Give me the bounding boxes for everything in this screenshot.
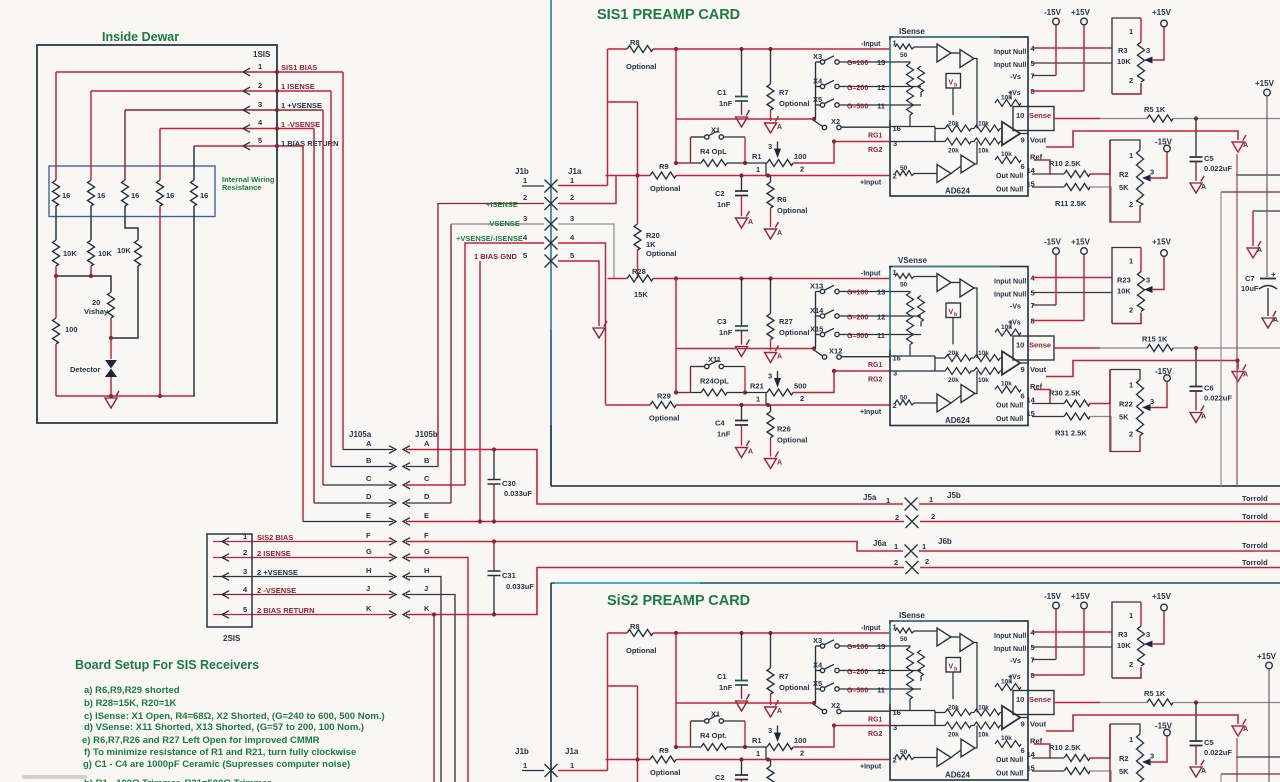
ground C7	[1262, 311, 1276, 328]
preamp core instance 3	[606, 592, 1280, 782]
wire riser pin1 to J105a A	[342, 72, 344, 450]
svg-text:5K: 5K	[1119, 183, 1129, 192]
svg-text:X4: X4	[813, 661, 823, 670]
svg-text:R21: R21	[750, 382, 764, 391]
svg-text:2: 2	[894, 558, 898, 567]
svg-text:K: K	[424, 604, 430, 613]
preamp core instance 1	[606, 8, 1280, 239]
svg-text:SIS1 PREAMP CARD: SIS1 PREAMP CARD	[597, 7, 740, 23]
connector header J105b	[415, 430, 438, 439]
svg-text:5: 5	[523, 251, 527, 260]
svg-text:15K: 15K	[634, 290, 648, 299]
resistor 10K col3	[135, 240, 142, 266]
connector J6b label	[922, 537, 952, 551]
svg-text:Board Setup For SIS Receivers: Board Setup For SIS Receivers	[75, 658, 259, 672]
capacitor C2 labels	[715, 189, 731, 209]
svg-text:Torrold: Torrold	[1242, 558, 1268, 567]
svg-text:Optional: Optional	[777, 436, 807, 445]
title SIS2 PREAMP CARD	[607, 593, 750, 609]
bottom node wire	[56, 395, 195, 397]
svg-text:J1b: J1b	[515, 747, 529, 756]
trim labels R5 (SIS2)	[1144, 689, 1166, 698]
svg-text:2 BIAS RETURN: 2 BIAS RETURN	[257, 606, 315, 615]
svg-text:R4 OpL: R4 OpL	[700, 147, 727, 156]
J1 mating X marks	[545, 180, 558, 268]
Torroid label 3	[1242, 541, 1268, 550]
capacitor C3 labels	[717, 317, 733, 337]
svg-text:Vishay: Vishay	[84, 307, 109, 316]
svg-text:R24OpL: R24OpL	[700, 377, 729, 386]
svg-text:1: 1	[886, 496, 890, 505]
net label 2 -VSENSE	[257, 586, 296, 595]
wire riser pin3 to J105a C	[322, 110, 324, 485]
SIS2 J1a pin1 wire	[558, 770, 608, 772]
svg-text:16: 16	[62, 191, 70, 200]
trim labels R15	[1142, 335, 1168, 344]
svg-text:5: 5	[570, 251, 574, 260]
svg-text:Optional: Optional	[650, 184, 680, 193]
capacitor C4 labels	[715, 419, 731, 439]
amplifier U2 title VSense	[898, 256, 927, 265]
wire J105b B up to J1b pin2	[406, 204, 544, 467]
svg-text:3: 3	[243, 567, 247, 576]
svg-text:Detector: Detector	[70, 365, 101, 374]
svg-text:10K: 10K	[1117, 641, 1131, 650]
SIS2 J1 pin1 numbers	[523, 761, 574, 770]
wire J1a pin2 stub	[558, 176, 616, 204]
trim labels R2	[1119, 170, 1129, 192]
svg-text:C31: C31	[502, 571, 516, 580]
svg-text:1: 1	[922, 542, 926, 551]
J1b pin1 stub	[522, 185, 544, 187]
svg-text:100: 100	[65, 325, 78, 334]
svg-text:R27: R27	[779, 317, 793, 326]
note a	[84, 685, 180, 696]
svg-text:C: C	[424, 474, 430, 483]
wire J1b pin5 riser to row E	[479, 261, 481, 522]
R20 labels	[646, 231, 676, 258]
detector diode	[105, 360, 117, 377]
wire riser pin2 to J105a B	[330, 91, 332, 467]
svg-text:R15 1K: R15 1K	[1142, 335, 1168, 344]
svg-text:X1: X1	[711, 126, 720, 135]
svg-text:X3: X3	[813, 52, 822, 61]
wire col1 node to 100	[55, 276, 57, 318]
resistor 16 (col3)	[122, 180, 129, 206]
svg-text:Optional: Optional	[650, 768, 680, 777]
net label 2 ISENSE	[257, 549, 291, 558]
connector 2SIS box	[207, 534, 252, 627]
Torroid label 2	[1242, 512, 1268, 521]
amplifier U3 title ISense	[899, 611, 925, 620]
svg-text:3: 3	[523, 214, 527, 223]
svg-text:C4: C4	[715, 419, 725, 428]
svg-text:2: 2	[523, 193, 527, 202]
svg-text:1nF: 1nF	[717, 200, 731, 209]
connector 2SIS label	[223, 634, 241, 643]
resistor R6 labels	[777, 195, 807, 215]
J6 row2 labels	[894, 557, 929, 567]
J105 row H	[213, 566, 429, 577]
svg-text:X5: X5	[813, 679, 822, 688]
svg-text:1: 1	[523, 761, 527, 770]
dewar ground	[105, 391, 119, 408]
net label 2 BIAS RETURN	[257, 606, 315, 615]
net label +ISENSE	[486, 200, 518, 209]
svg-text:10K: 10K	[117, 246, 131, 255]
svg-text:+15V: +15V	[1257, 652, 1277, 661]
wire col1 below box	[55, 206, 57, 240]
svg-text:C5: C5	[1204, 738, 1214, 747]
svg-text:b) R28=15K, R20=1K: b) R28=15K, R20=1K	[84, 698, 177, 709]
svg-text:1nF: 1nF	[719, 99, 733, 108]
svg-text:1K: 1K	[646, 240, 656, 249]
svg-text:R1: R1	[752, 736, 762, 745]
junction dots row K	[432, 612, 496, 616]
resistor 16 (col1)	[53, 180, 60, 206]
wire vishay node to detector	[110, 338, 112, 359]
svg-text:16: 16	[131, 191, 139, 200]
connector header J1b	[515, 167, 529, 176]
J105 row D	[314, 492, 430, 503]
svg-text:1: 1	[243, 532, 247, 541]
note f	[84, 747, 356, 758]
resistor R24 label	[700, 377, 729, 386]
note b	[84, 698, 177, 709]
svg-text:R29: R29	[657, 392, 671, 401]
resistor R7 labels	[779, 88, 809, 108]
SIS2 card top edge	[551, 582, 1280, 584]
wire column 5 from pin5	[193, 146, 195, 180]
switch label X11	[708, 355, 721, 364]
capacitor C2 label (SIS2)	[715, 773, 725, 782]
wire J105b G down (to SIS2 J1b pin2)	[406, 558, 468, 782]
svg-text:16: 16	[166, 191, 174, 200]
node wire 10K bottoms	[56, 276, 111, 292]
junction dot vishay node	[109, 336, 113, 340]
svg-text:R3: R3	[1118, 630, 1128, 639]
scan smudge bottom left	[22, 775, 87, 779]
wire col5 to bottom node	[193, 206, 195, 396]
wire J105b A to J5a	[406, 450, 903, 505]
svg-text:B: B	[366, 456, 372, 465]
J6 X marks	[905, 545, 919, 575]
switch labels X3 X4 X5 X2 (SIS2)	[813, 636, 840, 710]
note c	[84, 711, 385, 722]
resistor R4 label (SIS2)	[700, 731, 727, 740]
J6 row2 wire right	[920, 567, 1280, 569]
svg-text:E: E	[424, 511, 429, 520]
svg-text:A: A	[1273, 317, 1278, 324]
net label 1 ISENSE	[281, 82, 315, 91]
svg-text:R22: R22	[1119, 400, 1133, 409]
svg-text:Torrold: Torrold	[1242, 541, 1268, 550]
resistor R20 column	[634, 102, 641, 279]
wire stub to edge y774 (SIS2)	[1221, 774, 1280, 782]
svg-text:0.022uF: 0.022uF	[1204, 748, 1232, 757]
J1a pin numbers	[570, 176, 575, 260]
resistor R9 labels (SIS2)	[650, 746, 680, 777]
svg-text:ISense: ISense	[899, 611, 925, 620]
wire 1SIS pin 4 row	[160, 128, 314, 130]
svg-text:R31 2.5K: R31 2.5K	[1055, 429, 1087, 438]
svg-text:500: 500	[794, 382, 807, 391]
trim labels R2 (SIS2)	[1119, 754, 1129, 776]
trim labels C5	[1204, 154, 1232, 173]
junction dot row F at C31	[492, 539, 496, 543]
svg-text:J5b: J5b	[947, 491, 961, 500]
junction dots 10K node	[54, 274, 93, 278]
svg-text:16: 16	[200, 191, 208, 200]
wire vertical x1237 (SIS2)	[1236, 738, 1238, 782]
svg-text:1nF: 1nF	[719, 328, 733, 337]
resistor 100	[53, 318, 60, 344]
svg-text:X11: X11	[708, 355, 721, 364]
svg-text:R8: R8	[630, 38, 640, 47]
svg-text:J105a: J105a	[349, 430, 372, 439]
svg-text:R10 2.5K: R10 2.5K	[1049, 743, 1081, 752]
trim labels C6	[1204, 384, 1232, 403]
svg-text:C3: C3	[717, 317, 727, 326]
svg-text:16: 16	[97, 191, 105, 200]
trim labels R10 (SIS2)	[1049, 743, 1081, 752]
resistor R9 labels	[650, 162, 680, 193]
amplifier U1 title ISense	[899, 27, 925, 36]
svg-text:J1b: J1b	[515, 167, 529, 176]
svg-text:100: 100	[794, 152, 807, 161]
net label +VSENSE/-ISENSE	[456, 234, 523, 243]
svg-text:c) ISense: X1 Open, R4=68Ω, X2: c) ISense: X1 Open, R4=68Ω, X2 Shorted, …	[84, 711, 385, 722]
wire 1SIS pin 3 row	[125, 109, 323, 111]
svg-text:1nF: 1nF	[719, 683, 733, 692]
svg-text:Optional: Optional	[626, 62, 656, 71]
svg-text:J1a: J1a	[568, 167, 582, 176]
wire 1SIS pin 5 row	[194, 145, 303, 147]
wire stub to edge y211	[1253, 210, 1280, 212]
dewar enclosure box	[37, 45, 277, 423]
svg-text:X1: X1	[711, 710, 720, 719]
svg-text:Torrold: Torrold	[1242, 494, 1268, 503]
svg-text:1: 1	[570, 176, 574, 185]
svg-text:C: C	[366, 474, 372, 483]
note g	[83, 759, 350, 770]
connector J5b label	[929, 491, 961, 504]
wire J1a pin4 stub	[558, 243, 606, 405]
svg-text:5K: 5K	[1119, 413, 1129, 422]
svg-text:Resistance: Resistance	[222, 183, 262, 192]
net label -VSENSE	[487, 219, 520, 228]
junction dots bottom node	[109, 394, 162, 398]
svg-text:R5 1K: R5 1K	[1144, 689, 1166, 698]
svg-text:ISense: ISense	[899, 27, 925, 36]
ground 1 BIAS GND	[593, 321, 607, 338]
wire J105b D up to J1b pin3	[406, 224, 544, 503]
wire 100 to bottom node	[55, 344, 57, 396]
potentiometer R1 labels	[752, 152, 807, 161]
svg-text:g) C1 - C4 are 1000pF Ceramic: g) C1 - C4 are 1000pF Ceramic (Supresses…	[83, 759, 350, 770]
Torroid label 1	[1242, 494, 1268, 503]
svg-text:1 BIAS GND: 1 BIAS GND	[474, 252, 518, 261]
switch label X1	[711, 126, 720, 135]
wire J105b E to J5a row2	[406, 521, 904, 523]
svg-text:C2: C2	[715, 773, 725, 782]
wire J1a pin5 to ground	[558, 261, 599, 326]
net label 1 +VSENSE	[281, 101, 322, 110]
svg-text:1 BIAS RETURN: 1 BIAS RETURN	[281, 139, 339, 148]
svg-text:X14: X14	[810, 306, 824, 315]
trim labels R10 R11	[1049, 159, 1087, 208]
svg-text:1nF: 1nF	[717, 430, 731, 439]
wire J1a pin3 stub	[558, 224, 614, 279]
wire 1SIS pin 1 row	[56, 71, 343, 73]
note d	[84, 722, 364, 733]
SIS1 card bottom edge	[551, 485, 1280, 487]
svg-text:10uF: 10uF	[1241, 284, 1259, 293]
SIS2 bottom connector J1a header	[565, 747, 579, 756]
trim labels R5	[1144, 105, 1166, 114]
svg-text:X2: X2	[831, 117, 840, 126]
J105 row E	[303, 511, 429, 522]
Torroid label 4	[1242, 558, 1268, 567]
svg-text:100: 100	[794, 736, 807, 745]
svg-text:5: 5	[243, 605, 247, 614]
svg-text:B: B	[424, 456, 430, 465]
svg-text:1: 1	[258, 62, 262, 71]
trim labels R3 (SIS2)	[1117, 630, 1131, 650]
svg-text:X5: X5	[813, 95, 822, 104]
wire vishay bottom	[110, 318, 112, 338]
preamp core instance 2	[606, 238, 1280, 469]
resistor R8 labels (SIS2)	[626, 622, 656, 655]
svg-text:F: F	[366, 531, 371, 540]
svg-text:J: J	[366, 584, 370, 593]
svg-text:-VSENSE: -VSENSE	[487, 219, 520, 228]
svg-text:1SIS: 1SIS	[253, 50, 271, 59]
wire jog to R20	[608, 101, 638, 103]
wire J105b F to J6a	[406, 542, 903, 552]
trim labels R22	[1119, 400, 1133, 422]
wire col2 10K to node	[90, 266, 92, 276]
resistor 10K col1	[53, 240, 60, 266]
connector header J1a	[568, 167, 582, 176]
net label SIS1 BIAS	[281, 63, 317, 72]
net label 1 BIAS RETURN	[281, 139, 339, 148]
svg-text:R9: R9	[659, 162, 669, 171]
svg-text:2 ISENSE: 2 ISENSE	[257, 549, 291, 558]
wire column 2 from pin2	[90, 91, 92, 180]
svg-text:A: A	[366, 439, 372, 448]
svg-text:+15V: +15V	[1255, 79, 1275, 88]
svg-text:0.022uF: 0.022uF	[1204, 164, 1232, 173]
wire J105b C up to J1b pin4	[406, 243, 544, 485]
svg-text:R6: R6	[777, 195, 787, 204]
capacitor C30	[488, 450, 533, 522]
resistor 10K col2	[88, 240, 95, 266]
SIS1 card left edge	[550, 0, 552, 486]
svg-text:C5: C5	[1204, 154, 1214, 163]
wire vertical x1221	[1220, 192, 1222, 486]
svg-text:20: 20	[92, 298, 100, 307]
svg-text:R26: R26	[777, 425, 791, 434]
junction dot row A at C30	[492, 447, 496, 451]
wire column 1 from pin1	[55, 72, 57, 180]
svg-text:G: G	[424, 547, 430, 556]
svg-text:5K: 5K	[1119, 767, 1129, 776]
J105 row C	[323, 474, 430, 485]
resistor R26 labels	[777, 425, 807, 445]
SIS2 J1 X mark	[545, 764, 558, 777]
J105 row B	[331, 456, 430, 467]
svg-text:SIS2 BIAS: SIS2 BIAS	[257, 533, 293, 542]
svg-text:SiS2 PREAMP CARD: SiS2 PREAMP CARD	[607, 593, 750, 609]
wire detector to bottom node	[110, 377, 112, 396]
svg-text:3: 3	[258, 100, 262, 109]
net label 2 +VSENSE	[257, 568, 298, 577]
svg-text:1 -VSENSE: 1 -VSENSE	[281, 120, 320, 129]
svg-text:5: 5	[258, 136, 262, 145]
svg-text:+ISENSE: +ISENSE	[486, 200, 518, 209]
svg-text:h) R1 - 100Ω Trimmer, R21=500Ω: h) R1 - 100Ω Trimmer, R21=500Ω Trimmer	[84, 778, 271, 782]
J1b pin numbers	[523, 176, 528, 260]
svg-text:R11 2.5K: R11 2.5K	[1055, 199, 1087, 208]
wire SIS2 jog to R20	[608, 685, 638, 687]
+15V supply top right	[1255, 79, 1275, 277]
SIS2 card left edge	[550, 583, 552, 782]
title Inside Dewar	[102, 30, 179, 44]
2SIS pin numbers	[243, 532, 248, 614]
svg-text:SIS1 BIAS: SIS1 BIAS	[281, 63, 317, 72]
svg-text:1: 1	[894, 542, 898, 551]
svg-text:2: 2	[895, 513, 899, 522]
wire J105b H down	[406, 577, 441, 782]
switch label X1 (SIS2)	[711, 710, 720, 719]
svg-text:0.022uF: 0.022uF	[1204, 394, 1232, 403]
svg-text:C2: C2	[715, 189, 725, 198]
J5 row2 labels	[895, 512, 935, 522]
J5 X marks	[905, 498, 919, 529]
svg-text:J1a: J1a	[565, 747, 579, 756]
connector J5a label	[863, 493, 890, 505]
wire stub to edge y192	[1221, 191, 1280, 193]
+15V supply bottom right (SIS2)	[1257, 652, 1277, 782]
svg-text:R8: R8	[630, 622, 640, 631]
wire J1a pin1 riser to R8	[607, 49, 609, 186]
resistor 16 (col2)	[88, 180, 95, 206]
notes title	[75, 658, 259, 672]
svg-text:2 +VSENSE: 2 +VSENSE	[257, 568, 298, 577]
svg-text:A: A	[424, 439, 430, 448]
J105 row G	[213, 547, 430, 558]
wire col2 below box	[90, 206, 92, 240]
svg-text:X2: X2	[831, 701, 840, 710]
1SIS pin junction dots on box edge	[275, 70, 279, 148]
svg-text:C30: C30	[502, 479, 516, 488]
switch labels X3 X4 X5 X2	[813, 52, 840, 126]
svg-text:d) VSense: X11 Shorted, X13 Sh: d) VSense: X11 Shorted, X13 Shorted, (G=…	[84, 722, 364, 733]
resistor R4 label	[700, 147, 727, 156]
svg-text:F: F	[424, 531, 429, 540]
wire x1253 to ground	[1252, 211, 1254, 246]
net label SIS2 BIAS	[257, 533, 293, 542]
svg-text:10K: 10K	[1117, 287, 1131, 296]
svg-text:R28: R28	[632, 267, 646, 276]
svg-text:K: K	[366, 604, 372, 613]
connector 1SIS label	[253, 50, 271, 59]
ground x1253	[1247, 241, 1261, 258]
J105 mating arrows	[389, 446, 410, 619]
svg-text:G: G	[366, 547, 372, 556]
wire stub to edge y757 (SIS2)	[1236, 756, 1280, 758]
